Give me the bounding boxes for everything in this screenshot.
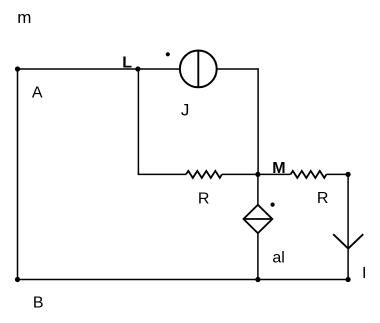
wire: left vertical from node A-corner to node B (17, 69, 19, 280)
svg-text:L: L (122, 55, 132, 72)
svg-text:R: R (317, 190, 329, 207)
current arrow I on right branch (open arrowhead pointing down) (333, 234, 363, 248)
svg-text:al: al (272, 250, 284, 267)
junction node bottom-left (B) (15, 277, 20, 282)
junction node at top-left corner (15, 66, 20, 71)
wire: vertical from node L down to middle wire (137, 69, 139, 174)
resistor R2 (zigzag) (291, 171, 327, 178)
dependent current source aI (diamond with horizontal bar) (244, 205, 273, 233)
junction node bottom-right (346, 277, 351, 282)
wire: vertical from top-right corner down to node M (257, 68, 259, 174)
wire: middle horizontal, node M to resistor R2 (258, 173, 290, 175)
svg-text:I: I (362, 265, 366, 282)
svg-text:J: J (181, 100, 190, 119)
wire: right vertical with current I (347, 174, 349, 279)
wire: current source right to top-right corner (217, 68, 259, 70)
svg-text:A: A (32, 85, 43, 102)
wire: middle horizontal, R1 to node M (222, 173, 258, 175)
svg-text:M: M (272, 160, 285, 177)
svg-text:R: R (198, 190, 210, 207)
wire: middle horizontal, L-corner to resistor R1 (138, 173, 186, 175)
junction node below dependent source (255, 277, 260, 282)
polarity dot of current source J (166, 52, 170, 56)
junction node M (255, 172, 260, 177)
polarity dot of dependent source (271, 203, 275, 207)
junction node right of R2 (346, 172, 351, 177)
wire: dependent source down to bottom wire (257, 233, 259, 279)
wire: middle horizontal, R2 to right corner (326, 173, 348, 175)
svg-text:B: B (33, 295, 44, 312)
wire: bottom side from node B to bottom-right corner (18, 279, 349, 281)
wire: node M down to dependent source (257, 174, 259, 205)
junction node L (135, 66, 140, 71)
svg-text:m: m (17, 8, 31, 27)
wire: top side from node A-corner to current source (18, 68, 181, 70)
resistor R1 (zigzag) (186, 171, 222, 178)
current source J (circle with vertical bar) (180, 51, 217, 88)
